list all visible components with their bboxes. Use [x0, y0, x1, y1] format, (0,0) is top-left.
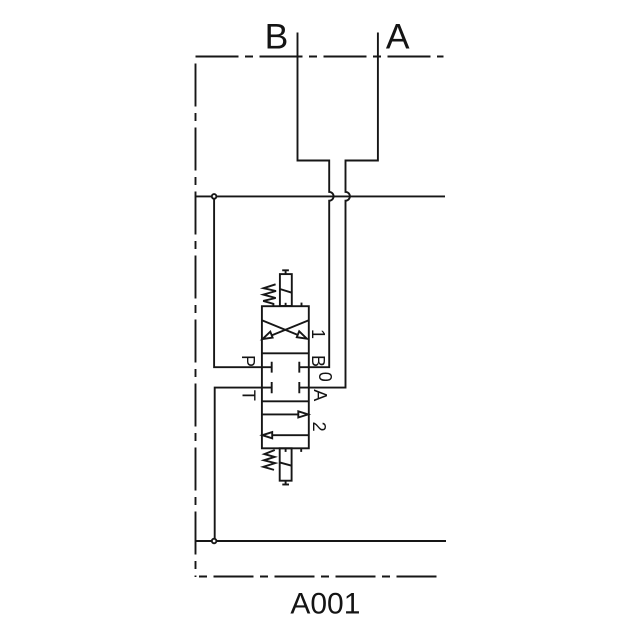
valve position 2 arrowhead left: [262, 432, 272, 438]
svg-text:A: A: [386, 17, 410, 57]
spring bottom: [263, 450, 275, 470]
valve position 0 blocked port P stub: [262, 362, 272, 373]
valve V1 body outline: [262, 306, 309, 448]
border chain line bottom: [196, 576, 443, 578]
valve position 1 crossed flow path left-to-right: [262, 320, 300, 336]
solenoid Y1 pin crossbar: [282, 269, 289, 271]
svg-text:T: T: [239, 390, 259, 401]
svg-text:1: 1: [308, 329, 328, 339]
valve position 1 arrowhead left: [263, 332, 273, 339]
node junction lower: [212, 539, 217, 544]
svg-text:B: B: [308, 355, 328, 367]
solenoid Y1 slash: [280, 289, 292, 293]
wire P feed from upper bus to valve port P: [214, 196, 262, 367]
valve position 0 blocked port A stub: [299, 382, 309, 393]
valve position 0 blocked port T stub: [262, 382, 272, 393]
svg-text:P: P: [238, 355, 258, 367]
solenoid Y2 armature tick: [285, 448, 287, 452]
svg-text:2: 2: [309, 422, 329, 432]
valve position 1 arrowhead right: [297, 331, 307, 338]
wire B vertical from label B with hop over bus: [298, 33, 334, 368]
solenoid Y1 armature tick: [285, 303, 287, 306]
wire horizontal bus upper: [196, 195, 446, 197]
node junction upper: [212, 194, 217, 199]
svg-text:0: 0: [315, 372, 335, 382]
border chain line top: [196, 56, 444, 58]
wire T return from valve port T to lower bus: [215, 388, 262, 541]
solenoid Y2 slash: [280, 462, 292, 465]
svg-text:A001: A001: [290, 588, 360, 621]
valve position 0 blocked port B stub: [299, 362, 309, 373]
position indicator tick bottom: [300, 448, 302, 452]
valve position 2 flow arrow right: [262, 413, 299, 415]
valve position 1 crossed flow path right-to-left: [270, 320, 309, 336]
spring top: [263, 284, 276, 306]
solenoid Y1 pin stem: [285, 270, 287, 274]
solenoid Y1 body top: [280, 274, 292, 306]
svg-text:A: A: [310, 389, 330, 401]
svg-text:B: B: [265, 17, 289, 57]
solenoid Y2 pin stem: [285, 481, 287, 485]
wire A vertical from label A with hop over bus: [309, 33, 378, 388]
solenoid Y2 body bottom: [280, 448, 292, 480]
valve position 2 flow arrow left: [272, 434, 309, 436]
valve position 2 arrowhead right: [298, 411, 308, 417]
position indicator tick top: [301, 303, 303, 307]
wire horizontal bus lower: [196, 540, 447, 542]
solenoid Y2 pin crossbar: [282, 484, 289, 486]
valve V1 box divider 1-0: [262, 352, 309, 354]
valve V1 box divider 0-2: [262, 400, 309, 402]
border chain line left: [195, 58, 197, 578]
